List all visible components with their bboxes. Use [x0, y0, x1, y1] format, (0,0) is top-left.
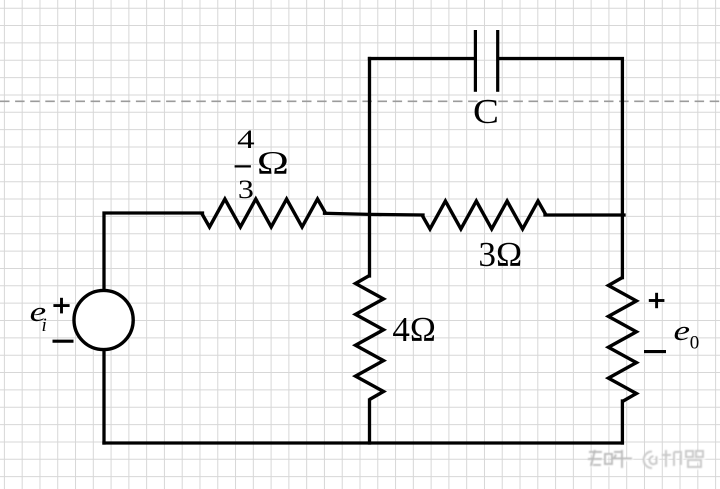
polarity - of output e0 [644, 350, 666, 353]
svg-text:Ω: Ω [257, 145, 289, 181]
wire: source bottom to bottom rail corner [102, 350, 105, 443]
svg-text:3: 3 [238, 174, 254, 204]
polarity + of source e_i [53, 298, 69, 314]
voltage source e_i [74, 290, 133, 349]
svg-text:C: C [473, 92, 499, 131]
svg-text:i: i [42, 315, 47, 336]
resistor R1 (4/3 ohm) [202, 199, 326, 227]
svg-text:e: e [674, 315, 691, 347]
svg-text:4Ω: 4Ω [392, 310, 436, 349]
wire: resistor R3 to bottom rail [368, 400, 371, 443]
resistor R4 (output resistor, vertical) [608, 278, 636, 402]
polarity + of output e0 [649, 293, 665, 308]
svg-text:4: 4 [237, 124, 255, 154]
center vertical wire: top rail through junction to resistor R3 [368, 59, 371, 277]
wire: capacitor to top-right corner down to resistor R4 [499, 59, 622, 278]
watermark zhihu [588, 450, 704, 470]
capacitor C1 plates [475, 30, 497, 92]
polarity - of source e_i [53, 340, 74, 343]
wire: resistor R1 to center junction to resistor R2 [325, 213, 424, 215]
svg-text:0: 0 [690, 332, 700, 353]
wire: top rail left segment to capacitor [370, 57, 474, 60]
resistor R3 (4 ohm, vertical) [356, 276, 384, 400]
wire: top-left node to source top [104, 213, 203, 291]
label fraction bar [235, 165, 251, 167]
resistor R2 (3 ohm) [422, 201, 546, 229]
wire: bottom rail up to resistor R4 [621, 401, 624, 443]
svg-text:3Ω: 3Ω [478, 235, 522, 274]
bottom rail wire [104, 441, 622, 444]
wire: resistor R2 to right rail [545, 213, 624, 216]
